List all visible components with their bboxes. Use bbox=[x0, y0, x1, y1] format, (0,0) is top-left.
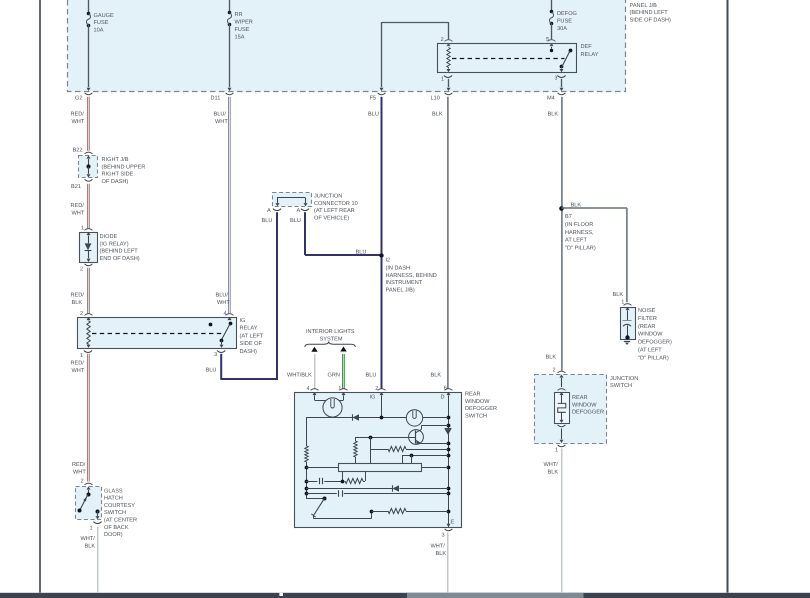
svg-text:SWITCH: SWITCH bbox=[104, 510, 126, 516]
svg-text:2: 2 bbox=[80, 311, 83, 317]
svg-text:HARNESS, BEHIND: HARNESS, BEHIND bbox=[386, 273, 437, 279]
svg-text:10A: 10A bbox=[94, 27, 104, 33]
svg-text:2: 2 bbox=[553, 368, 556, 374]
svg-text:CONNECTOR 10: CONNECTOR 10 bbox=[314, 201, 358, 207]
svg-text:1: 1 bbox=[338, 386, 341, 392]
svg-text:WHT/: WHT/ bbox=[544, 461, 559, 468]
svg-text:OF VEHICLE): OF VEHICLE) bbox=[314, 214, 349, 221]
svg-text:1: 1 bbox=[441, 76, 444, 82]
svg-text:BLU: BLU bbox=[206, 368, 217, 374]
svg-text:M4: M4 bbox=[547, 96, 555, 102]
svg-text:D11: D11 bbox=[211, 96, 221, 102]
svg-text:(AT LEFT: (AT LEFT bbox=[638, 347, 662, 354]
svg-text:BLK: BLK bbox=[436, 551, 447, 557]
svg-text:1: 1 bbox=[80, 353, 83, 359]
svg-text:WINDOW: WINDOW bbox=[465, 399, 490, 405]
svg-text:RED/: RED/ bbox=[71, 360, 85, 367]
svg-text:BLK: BLK bbox=[72, 300, 83, 306]
svg-text:BLK: BLK bbox=[432, 112, 443, 118]
svg-text:5: 5 bbox=[546, 37, 549, 43]
svg-text:2: 2 bbox=[441, 37, 444, 43]
svg-text:G2: G2 bbox=[75, 96, 82, 102]
svg-text:(AT LEFT: (AT LEFT bbox=[240, 332, 264, 339]
svg-text:AT LEFT: AT LEFT bbox=[565, 238, 587, 244]
svg-text:PANEL J/B): PANEL J/B) bbox=[386, 286, 415, 293]
svg-text:SIDE OF: SIDE OF bbox=[240, 341, 263, 347]
svg-text:IG: IG bbox=[240, 318, 246, 324]
svg-text:DEFOGGER: DEFOGGER bbox=[465, 406, 497, 412]
svg-text:GRN: GRN bbox=[328, 373, 340, 379]
svg-text:DEF: DEF bbox=[581, 44, 593, 50]
svg-text:BLU/: BLU/ bbox=[214, 111, 227, 118]
svg-text:(AT LEFT REAR: (AT LEFT REAR bbox=[314, 207, 355, 214]
svg-text:30A: 30A bbox=[557, 26, 567, 32]
svg-text:WHT: WHT bbox=[72, 211, 85, 217]
svg-text:2: 2 bbox=[80, 267, 83, 273]
svg-text:WHT: WHT bbox=[73, 470, 86, 476]
svg-text:WINDOW: WINDOW bbox=[638, 332, 663, 338]
svg-text:BLK: BLK bbox=[85, 544, 96, 550]
svg-text:B22: B22 bbox=[73, 148, 83, 154]
svg-text:WHT/BLK: WHT/BLK bbox=[287, 372, 312, 379]
svg-text:WHT: WHT bbox=[217, 300, 230, 306]
svg-text:RIGHT J/B: RIGHT J/B bbox=[102, 156, 129, 163]
svg-text:2: 2 bbox=[81, 479, 84, 485]
svg-text:COURTESY: COURTESY bbox=[104, 503, 135, 509]
svg-text:6: 6 bbox=[444, 386, 447, 392]
svg-text:REAR: REAR bbox=[465, 392, 481, 398]
svg-text:WHT: WHT bbox=[72, 119, 85, 125]
svg-text:15A: 15A bbox=[235, 34, 245, 40]
svg-text:4: 4 bbox=[307, 386, 310, 392]
svg-text:(IG RELAY): (IG RELAY) bbox=[100, 240, 129, 247]
svg-text:"D" PILLAR): "D" PILLAR) bbox=[565, 245, 596, 252]
svg-text:(IN FLOOR: (IN FLOOR bbox=[565, 221, 593, 228]
svg-text:A: A bbox=[267, 208, 271, 214]
svg-text:(AT CENTER: (AT CENTER bbox=[104, 517, 137, 524]
svg-text:BLU: BLU bbox=[368, 112, 379, 118]
svg-text:HATCH: HATCH bbox=[104, 496, 123, 502]
svg-text:JUNCTION: JUNCTION bbox=[314, 194, 342, 200]
svg-text:SYSTEM: SYSTEM bbox=[320, 337, 343, 343]
svg-text:BLK: BLK bbox=[546, 355, 557, 361]
svg-text:REAR: REAR bbox=[572, 395, 588, 401]
svg-text:WHT/: WHT/ bbox=[81, 535, 96, 542]
svg-text:DASH): DASH) bbox=[240, 348, 258, 355]
svg-text:D: D bbox=[441, 395, 445, 401]
svg-text:RED/: RED/ bbox=[71, 111, 85, 118]
svg-text:3: 3 bbox=[554, 76, 557, 82]
svg-text:DEFOGGER): DEFOGGER) bbox=[638, 339, 672, 346]
svg-text:WHT: WHT bbox=[215, 119, 228, 125]
svg-text:BLU: BLU bbox=[366, 373, 377, 379]
svg-text:3: 3 bbox=[442, 533, 445, 539]
svg-text:DEFOG: DEFOG bbox=[557, 11, 577, 17]
svg-text:BLU/: BLU/ bbox=[216, 292, 229, 299]
svg-text:B21: B21 bbox=[71, 184, 81, 190]
svg-text:RELAY: RELAY bbox=[240, 326, 258, 332]
svg-text:RED/: RED/ bbox=[72, 461, 86, 468]
svg-text:RIGHT SIDE: RIGHT SIDE bbox=[102, 172, 134, 178]
svg-text:BLK: BLK bbox=[548, 112, 559, 118]
svg-text:SWITCH: SWITCH bbox=[610, 383, 632, 389]
svg-text:SIDE OF DASH): SIDE OF DASH) bbox=[630, 16, 671, 23]
svg-text:F5: F5 bbox=[370, 96, 377, 102]
svg-text:2: 2 bbox=[375, 386, 378, 392]
svg-text:GAUGE: GAUGE bbox=[94, 13, 114, 19]
svg-text:1: 1 bbox=[81, 226, 84, 232]
svg-text:OF DASH): OF DASH) bbox=[102, 178, 129, 185]
svg-text:RED/: RED/ bbox=[71, 202, 85, 209]
svg-text:BLK: BLK bbox=[548, 470, 559, 476]
svg-text:BLU: BLU bbox=[262, 218, 273, 224]
svg-text:BLK: BLK bbox=[431, 373, 442, 379]
svg-text:4: 4 bbox=[224, 311, 227, 317]
svg-text:WIPER: WIPER bbox=[235, 20, 253, 26]
svg-text:3: 3 bbox=[214, 352, 217, 358]
svg-text:(IN DASH: (IN DASH bbox=[386, 265, 411, 272]
svg-text:L10: L10 bbox=[431, 96, 440, 102]
svg-text:JUNCTION: JUNCTION bbox=[610, 376, 638, 382]
svg-text:BLU: BLU bbox=[356, 250, 367, 256]
svg-text:WHT/: WHT/ bbox=[431, 543, 446, 550]
svg-text:1: 1 bbox=[90, 526, 93, 532]
svg-text:1: 1 bbox=[555, 448, 558, 454]
svg-text:INTERIOR LIGHTS: INTERIOR LIGHTS bbox=[306, 329, 355, 335]
svg-text:B7: B7 bbox=[565, 214, 572, 220]
svg-text:RELAY: RELAY bbox=[581, 52, 599, 58]
svg-text:DEFOGGER: DEFOGGER bbox=[572, 410, 604, 416]
svg-text:PANEL J/B: PANEL J/B bbox=[630, 2, 658, 9]
svg-text:IG: IG bbox=[370, 395, 376, 401]
svg-text:RED/: RED/ bbox=[71, 292, 85, 299]
svg-text:NOISE: NOISE bbox=[638, 308, 656, 314]
svg-text:I2: I2 bbox=[386, 258, 391, 264]
svg-text:FILTER: FILTER bbox=[638, 316, 657, 322]
svg-text:DOOR): DOOR) bbox=[104, 531, 123, 538]
svg-text:END OF DASH): END OF DASH) bbox=[100, 255, 140, 262]
svg-text:(BEHIND LEFT: (BEHIND LEFT bbox=[100, 248, 139, 255]
svg-text:GLASS: GLASS bbox=[104, 488, 123, 494]
svg-text:(BEHIND LEFT: (BEHIND LEFT bbox=[630, 9, 669, 16]
svg-text:HARNESS,: HARNESS, bbox=[565, 230, 594, 236]
svg-text:BLU: BLU bbox=[290, 218, 301, 224]
svg-text:E: E bbox=[451, 520, 455, 526]
svg-text:BLK: BLK bbox=[613, 292, 624, 298]
svg-text:FUSE: FUSE bbox=[557, 19, 572, 25]
svg-text:INSTRUMENT: INSTRUMENT bbox=[386, 280, 423, 286]
svg-text:RR: RR bbox=[235, 12, 243, 18]
svg-text:FUSE: FUSE bbox=[94, 20, 109, 26]
svg-text:WHT: WHT bbox=[72, 368, 85, 374]
svg-text:A: A bbox=[297, 208, 301, 214]
svg-text:(BEHIND UPPER: (BEHIND UPPER bbox=[102, 163, 146, 170]
svg-text:SWITCH: SWITCH bbox=[465, 413, 487, 419]
svg-text:DIODE: DIODE bbox=[100, 234, 118, 240]
svg-text:FUSE: FUSE bbox=[235, 27, 250, 33]
svg-text:WINDOW: WINDOW bbox=[572, 402, 597, 408]
svg-text:(REAR: (REAR bbox=[638, 323, 655, 330]
svg-text:"D" PILLAR): "D" PILLAR) bbox=[638, 354, 669, 361]
svg-text:OF BACK: OF BACK bbox=[104, 525, 129, 531]
